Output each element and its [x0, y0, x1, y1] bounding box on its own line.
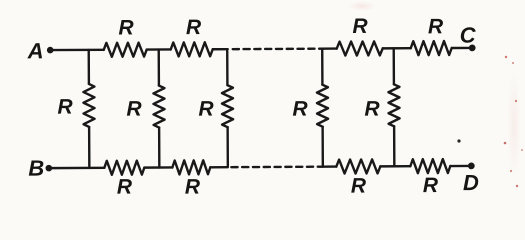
- wire from R9 (first shunt) down to bottom rail: [88, 127, 91, 168]
- resistor R1 (top, first): [104, 43, 147, 57]
- wire bottom rail dashed continuation: [231, 165, 320, 168]
- wire bottom rail dash end to R7: [320, 165, 336, 167]
- wire from R10 (second shunt) down to bottom rail: [158, 128, 161, 168]
- svg-text:R: R: [185, 176, 201, 199]
- node D terminal dot: [468, 162, 475, 169]
- node A terminal dot: [47, 47, 54, 54]
- wire top rail R2 to node at third shunt: [213, 48, 228, 50]
- wire from top rail down to R9 (first shunt): [88, 50, 91, 84]
- wire top rail R3 to R4: [383, 47, 411, 50]
- resistor R2 (top, second): [171, 42, 213, 56]
- svg-text:A: A: [27, 38, 44, 63]
- wire top rail dashed continuation: [233, 47, 320, 50]
- resistor R7 (bottom, third): [336, 159, 380, 173]
- svg-text:R: R: [186, 16, 202, 39]
- resistor R6 (bottom, second): [172, 160, 210, 174]
- svg-text:R: R: [423, 174, 439, 197]
- svg-text:R: R: [428, 15, 444, 38]
- svg-text:R: R: [57, 96, 73, 119]
- node B terminal dot: [46, 165, 53, 172]
- wire bottom rail R6 to node at third shunt: [210, 166, 227, 168]
- wire bottom rail R8 to D: [450, 165, 468, 167]
- resistor R12 (fourth shunt) vertical: [317, 85, 328, 127]
- svg-text:D: D: [463, 170, 479, 195]
- red specks right margin: [505, 56, 507, 58]
- svg-text:R: R: [117, 176, 133, 199]
- wire from top rail down to R12 (fourth shunt): [321, 49, 324, 85]
- svg-text:C: C: [460, 23, 477, 48]
- svg-text:R: R: [198, 98, 214, 121]
- resistor R8 (bottom, fourth): [410, 159, 450, 173]
- wire bottom rail B to R5: [48, 167, 104, 170]
- wire from top rail down to R11 (third shunt): [226, 49, 229, 85]
- wire top rail A to R1: [50, 49, 104, 52]
- resistor R5 (bottom, first): [104, 161, 144, 175]
- wire bottom rail R7 to R8: [380, 165, 410, 168]
- svg-text:R: R: [118, 16, 134, 39]
- svg-text:R: R: [351, 175, 367, 198]
- resistor R4 (top, fourth): [411, 41, 452, 55]
- svg-text:R: R: [352, 15, 368, 38]
- wire top rail dash end to R3: [320, 47, 337, 49]
- resistor R3 (top, third): [337, 41, 383, 55]
- svg-text:R: R: [292, 98, 308, 121]
- resistor R9 (first shunt) vertical: [83, 84, 94, 127]
- svg-text:R: R: [364, 98, 380, 121]
- svg-text:R: R: [126, 98, 142, 121]
- svg-text:B: B: [28, 156, 44, 181]
- wire top rail R4 to C: [452, 47, 471, 50]
- resistor R13 (fifth shunt) vertical: [388, 84, 399, 126]
- resistor R10 (second shunt) vertical: [153, 86, 164, 128]
- wire top rail R1 to R2: [147, 48, 171, 51]
- wire from R11 (third shunt) down to bottom rail: [226, 127, 229, 167]
- wire from top rail down to R10 (second shunt): [158, 50, 161, 86]
- wire bottom rail R5 to R6: [144, 166, 172, 169]
- wire from top rail down to R13 (fifth shunt): [393, 48, 396, 84]
- wire from R12 (fourth shunt) down to bottom rail: [321, 127, 324, 167]
- resistor R11 (third shunt) vertical: [222, 85, 233, 127]
- wire from R13 (fifth shunt) down to bottom rail: [393, 126, 396, 166]
- node C terminal dot: [469, 44, 476, 51]
- ink speck near D: [457, 139, 460, 142]
